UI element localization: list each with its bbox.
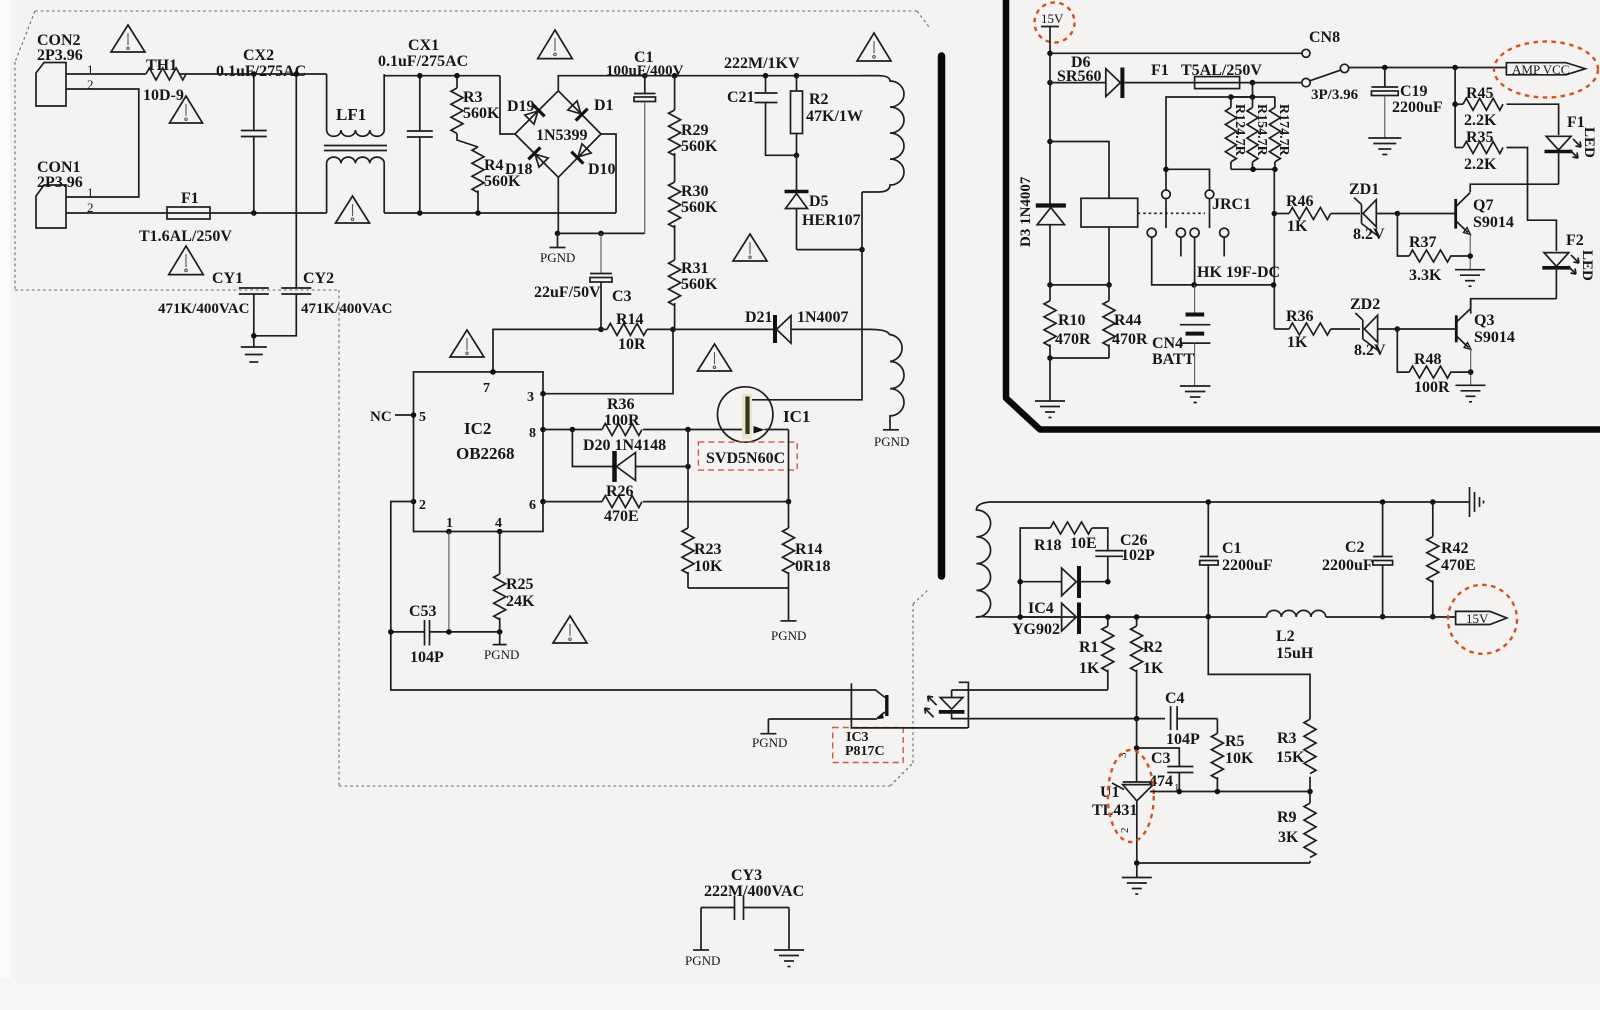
svg-text:102P: 102P: [1121, 547, 1155, 564]
warning triangle below TH1: [170, 96, 203, 123]
junction CY ground node: [251, 333, 257, 339]
svg-text:5: 5: [419, 410, 426, 425]
svg-text:3.3K: 3.3K: [1409, 267, 1442, 284]
resistor R30 560K: [669, 153, 718, 228]
svg-text:6: 6: [529, 498, 536, 513]
svg-text:471K/400VAC: 471K/400VAC: [301, 301, 392, 317]
svg-text:R31: R31: [681, 260, 709, 277]
wire contact3 to battery: [1194, 237, 1196, 285]
svg-text:R3: R3: [1277, 730, 1297, 747]
junction anode rail: [1134, 860, 1140, 866]
svg-text:AMP VCC: AMP VCC: [1512, 62, 1569, 77]
junction C3 top node: [598, 231, 604, 237]
svg-text:C19: C19: [1400, 83, 1428, 100]
svg-text:15K: 15K: [1276, 749, 1305, 766]
wire D21 line to aux winding: [673, 328, 775, 330]
resistor R14 0R18: [783, 502, 831, 588]
svg-text:D18: D18: [505, 161, 533, 178]
resistor trio top rail: [1231, 83, 1253, 97]
svg-text:IC1: IC1: [783, 407, 810, 426]
svg-text:8.2V: 8.2V: [1354, 342, 1386, 359]
resistor R26 470E: [602, 483, 642, 525]
resistor R36 1K (lower): [1286, 308, 1331, 351]
battery CN4 BATT: [1152, 285, 1210, 386]
capacitor CY2 471K/400VAC: [254, 270, 393, 336]
svg-text:R36: R36: [1286, 308, 1314, 325]
junction C53 pin1: [446, 629, 452, 635]
svg-text:HK 19F-DC: HK 19F-DC: [1197, 264, 1280, 281]
junction CX1 bottom: [417, 210, 423, 216]
wire relay coil top: [1050, 142, 1109, 199]
junction battery tap: [1191, 282, 1197, 288]
svg-text:8.2V: 8.2V: [1353, 226, 1385, 243]
junction C53 pin4: [497, 629, 503, 635]
svg-text:R14: R14: [616, 311, 644, 328]
svg-text:222M/1KV: 222M/1KV: [724, 55, 800, 72]
svg-text:1N4007: 1N4007: [797, 309, 849, 326]
wire R45 to F1 LED: [1507, 104, 1559, 135]
wire CN8 line: [1050, 52, 1303, 54]
junction C2 top: [1380, 499, 1386, 505]
earth ground below CY1/CY2: [241, 347, 267, 362]
wire base line to Q3: [1397, 328, 1455, 330]
wire pin6 to R26: [543, 501, 602, 503]
svg-text:R23: R23: [694, 541, 722, 558]
svg-text:2P3.96: 2P3.96: [37, 47, 83, 64]
svg-text:YG902: YG902: [1012, 621, 1060, 638]
junction C53 left: [388, 629, 394, 635]
fuse F1 T1.6AL/250V: [139, 190, 232, 245]
connector CON1 2P3.96: [36, 159, 94, 228]
junction C3 bottom: [1177, 789, 1183, 795]
svg-text:SVD5N60C: SVD5N60C: [706, 450, 785, 467]
wire R10/R44 top rail: [1050, 284, 1109, 286]
dashed border of primary-side region: [15, 11, 929, 786]
svg-text:R25: R25: [506, 576, 534, 593]
junction R15 bottom: [1250, 167, 1256, 173]
svg-text:470R: 470R: [1055, 331, 1091, 348]
svg-text:L2: L2: [1276, 628, 1295, 645]
wire Q7 emitter down: [1469, 234, 1471, 270]
diode D1 (bridge top-right arm): [566, 99, 587, 120]
svg-text:2: 2: [1119, 828, 1131, 834]
junction R46 tap: [1272, 211, 1278, 217]
resistor trio bottom rail: [1231, 168, 1275, 170]
diode D18 (bridge bottom-left arm): [528, 147, 549, 168]
warning triangle below LF1: [336, 196, 370, 223]
svg-text:10R: 10R: [618, 336, 646, 353]
junction IC4 lower cathode / R1 top: [1105, 614, 1111, 620]
warning triangle near transformer top: [857, 33, 891, 61]
svg-text:T5AL/250V: T5AL/250V: [1181, 62, 1262, 79]
junction R3 top: [454, 73, 460, 79]
svg-text:R1: R1: [1079, 639, 1099, 656]
wire F2 cathode to Q3 collector: [1471, 299, 1557, 314]
svg-text:R30: R30: [681, 183, 709, 200]
svg-text:LED: LED: [1579, 250, 1595, 281]
svg-text:2P3.96: 2P3.96: [37, 174, 83, 191]
svg-text:1K: 1K: [1287, 334, 1308, 351]
wire LF1 to CX1 (L): [384, 75, 500, 77]
svg-text:560K: 560K: [681, 138, 718, 155]
wire D21 anode to aux winding hook: [791, 328, 870, 330]
earth ground at Q3 emitter: [1456, 385, 1486, 402]
earth ground at CY3: [774, 908, 804, 967]
junction bridge minus node: [555, 231, 561, 237]
svg-text:R3: R3: [463, 89, 483, 106]
junction R10 bottom: [1047, 355, 1053, 361]
junction R17 bottom: [1272, 167, 1278, 173]
optocoupler IC3 LED side: [925, 682, 969, 728]
wire R35 to F2 LED: [1507, 148, 1557, 252]
pin 5 NC stub: [370, 409, 416, 425]
svg-text:CN8: CN8: [1309, 29, 1340, 46]
wire CON1 pin2 to fuse F1: [66, 212, 167, 214]
junction D20 right node: [685, 464, 691, 470]
junction IC4 upper cathode: [1105, 579, 1111, 585]
svg-text:560K: 560K: [463, 105, 500, 122]
svg-text:47K/1W: 47K/1W: [806, 108, 863, 125]
svg-text:S9014: S9014: [1474, 329, 1515, 346]
svg-text:T1.6AL/250V: T1.6AL/250V: [139, 228, 232, 245]
svg-text:D19: D19: [507, 98, 535, 115]
junction R3/R9 node: [1307, 789, 1313, 795]
pin 7 junction: [490, 369, 496, 375]
svg-text:PGND: PGND: [752, 735, 787, 750]
svg-text:D1: D1: [594, 97, 614, 114]
svg-text:8: 8: [529, 426, 536, 441]
wire left branch to relay contacts: [1166, 97, 1231, 190]
svg-text:S9014: S9014: [1473, 214, 1514, 231]
relay JRC1 HK 19F-DC: [1081, 190, 1280, 281]
capacitor CX2 0.1uF/275AC: [216, 47, 306, 213]
svg-text:10E: 10E: [1070, 535, 1097, 552]
svg-text:PGND: PGND: [771, 628, 806, 643]
resistor R37 3.3K: [1397, 214, 1470, 285]
svg-text:R2: R2: [809, 91, 829, 108]
wire R14 to R31/D21 node: [647, 328, 673, 330]
junction C1 bottom: [1206, 614, 1212, 620]
junction ZD2/R48 node: [1395, 326, 1401, 332]
svg-text:IC3: IC3: [846, 730, 869, 745]
zener ZD2 8.2V: [1350, 296, 1397, 359]
PGND symbol at bridge: [540, 233, 575, 265]
PGND at CY3: [685, 908, 720, 969]
junction CX2 bottom / CY1 tap: [251, 210, 257, 216]
zener ZD1 8.2V: [1349, 181, 1397, 243]
wire base line to Q7: [1397, 213, 1454, 215]
junction IC4 upper anode: [1017, 579, 1023, 585]
svg-text:R35: R35: [1466, 129, 1494, 146]
svg-text:R44: R44: [1114, 312, 1142, 329]
junction CX2 top: [251, 71, 257, 77]
svg-text:R18: R18: [1034, 537, 1062, 554]
15V supply terminal (circled): [1035, 3, 1075, 54]
warning triangle near CON2: [111, 25, 145, 52]
resistor R18 10E: [1020, 522, 1108, 554]
svg-text:2.2K: 2.2K: [1464, 112, 1497, 129]
wire N up to bridge right corner: [601, 134, 616, 213]
svg-text:TL431: TL431: [1092, 802, 1137, 819]
svg-text:TH1: TH1: [146, 57, 177, 74]
shunt regulator U1 TL431: [1092, 750, 1154, 863]
wire bridge + output to C1 rail: [558, 76, 880, 91]
svg-text:Q3: Q3: [1474, 312, 1494, 329]
svg-text:LF1: LF1: [336, 105, 366, 124]
svg-text:C2: C2: [1345, 539, 1365, 556]
capacitor C1 2200uF (secondary): [1200, 502, 1273, 617]
junction D6 anode: [1047, 80, 1053, 86]
svg-text:IC4: IC4: [1028, 600, 1054, 617]
warning triangle near IC2 pin7: [450, 330, 484, 357]
svg-text:1K: 1K: [1079, 660, 1100, 677]
svg-text:CY3: CY3: [731, 867, 762, 884]
wire D6 anode lead: [1050, 82, 1106, 84]
svg-text:7: 7: [483, 381, 490, 396]
svg-text:F2: F2: [1566, 232, 1584, 249]
svg-text:HER107: HER107: [802, 212, 861, 229]
svg-text:CX2: CX2: [243, 47, 274, 64]
junction C3 tap: [1134, 745, 1140, 751]
svg-text:PGND: PGND: [874, 434, 909, 449]
earth ground at Q7 emitter: [1455, 270, 1485, 287]
svg-text:3K: 3K: [1278, 829, 1299, 846]
pin 6 junction: [540, 499, 546, 505]
pin 4 junction: [497, 529, 503, 535]
svg-text:D10: D10: [588, 161, 616, 178]
earth ground below TL431: [1122, 863, 1152, 894]
svg-text:R174.7R: R174.7R: [1276, 104, 1291, 157]
diode D3 1N4007: [1018, 176, 1066, 285]
resistor R14 10R: [601, 311, 647, 353]
wire pin2 to opto collector: [391, 502, 877, 691]
wire IC4 anode riser: [1019, 534, 1021, 617]
resistor R44 470R: [1103, 285, 1148, 358]
wire switch to AMP VCC rail: [1349, 67, 1507, 69]
wire R46 to ZD1: [1331, 213, 1360, 215]
wire source node down to R26 line: [788, 430, 790, 502]
wire fuse to switch: [1240, 82, 1302, 84]
wire ref line: [1150, 791, 1310, 793]
svg-text:IC2: IC2: [464, 419, 491, 438]
svg-text:R5: R5: [1225, 733, 1245, 750]
resistor R2 1K (secondary): [1131, 617, 1164, 719]
resistor R5 10K: [1211, 719, 1254, 792]
wire D6 to fuse: [1124, 82, 1194, 84]
wire F1 cathode to Q7 collector: [1470, 184, 1558, 192]
svg-text:D3 1N4007: D3 1N4007: [1018, 176, 1034, 247]
junction relay coil bottom: [1106, 282, 1112, 288]
svg-text:R45: R45: [1466, 85, 1494, 102]
wire LED anode to R1: [952, 689, 1108, 691]
wire CON2 pin2 joins CON1 pin1: [66, 89, 139, 197]
wire L2 to 15V flag: [1326, 616, 1456, 618]
resistor R2 47K/1W: [791, 76, 863, 156]
switch 3P/3.96: [1302, 64, 1359, 103]
svg-text:560K: 560K: [681, 276, 718, 293]
wire C1 bottom to R3 feed: [1208, 617, 1310, 720]
wire CY2 branch from L line: [295, 74, 297, 288]
svg-text:1K: 1K: [1143, 660, 1164, 677]
optocoupler IC3 P817C transistor side: [768, 690, 886, 719]
svg-text:PGND: PGND: [685, 953, 720, 968]
junction R36/R23 riser: [685, 427, 691, 433]
PGND under R14: [771, 588, 806, 643]
svg-text:R46: R46: [1286, 193, 1314, 210]
svg-text:R124.7R: R124.7R: [1232, 104, 1247, 157]
svg-text:R14: R14: [795, 541, 823, 558]
svg-text:JRC1: JRC1: [1212, 196, 1251, 213]
capacitor C4 104P: [1165, 690, 1217, 748]
wire fuse to LF1 (N line): [210, 212, 327, 214]
junction IC4 lower anode: [1017, 614, 1023, 620]
svg-text:560K: 560K: [681, 199, 718, 216]
wire opto to C4 line: [968, 718, 1165, 720]
svg-text:P817C: P817C: [845, 744, 885, 759]
resistor R46 1K: [1274, 193, 1330, 235]
capacitor C3 474 (secondary): [1137, 748, 1194, 794]
svg-text:R9: R9: [1277, 809, 1297, 826]
svg-text:1: 1: [446, 516, 453, 531]
svg-text:OB2268: OB2268: [456, 444, 515, 463]
capacitor C3 22uF/50V: [534, 233, 632, 329]
wire R3 to R4: [457, 134, 478, 148]
svg-text:0.1uF/275AC: 0.1uF/275AC: [378, 53, 468, 70]
wire trio to ZD rows: [1273, 169, 1275, 329]
wire L into bridge left corner: [500, 76, 515, 134]
svg-text:2.2K: 2.2K: [1464, 156, 1497, 173]
wire LF1 to bridge (N): [384, 212, 616, 214]
svg-text:D5: D5: [809, 193, 829, 210]
connector CON2 2P3.96: [36, 32, 94, 106]
junction R42 bottom: [1430, 614, 1436, 620]
svg-text:2200uF: 2200uF: [1222, 557, 1273, 574]
junction C2 bottom: [1380, 614, 1386, 620]
wire pin8 line to R36: [543, 429, 602, 431]
svg-text:1K: 1K: [1287, 218, 1308, 235]
svg-text:100R: 100R: [1414, 379, 1450, 396]
earth ground below R10: [1035, 358, 1065, 418]
PGND at opto emitter: [752, 719, 787, 750]
junction C19 tap: [1382, 65, 1388, 71]
label box SVD5N60C: [698, 442, 797, 470]
connector CN8: [1302, 29, 1340, 57]
wire R2 node down to TL431: [1136, 719, 1138, 782]
IC U2 OB2268 box: [414, 372, 544, 532]
resistor R3 15K (secondary): [1276, 719, 1316, 791]
svg-text:0.1uF/275AC: 0.1uF/275AC: [216, 63, 306, 80]
bridge rectifier 1N5399 diamond: [515, 91, 601, 178]
svg-text:3P/3.96: 3P/3.96: [1311, 87, 1359, 103]
svg-text:PGND: PGND: [484, 647, 519, 662]
svg-text:104P: 104P: [1166, 731, 1200, 748]
svg-text:R42: R42: [1441, 540, 1469, 557]
svg-text:Q7: Q7: [1473, 197, 1493, 214]
junction D5/drain node: [859, 247, 865, 253]
svg-text:10K: 10K: [694, 558, 723, 575]
wire R23 to R14 bottoms: [688, 587, 789, 589]
pin 8 junction: [540, 427, 546, 433]
resistor R3 560K: [451, 76, 500, 134]
svg-text:CN4: CN4: [1152, 335, 1183, 352]
label box IC3 P817C: [833, 728, 904, 763]
svg-text:470E: 470E: [604, 508, 639, 525]
junction C1 top: [1206, 499, 1212, 505]
wire LED-cathode return crossing: [851, 683, 967, 728]
svg-text:24K: 24K: [506, 593, 535, 610]
wire R36 to ZD2: [1331, 328, 1360, 330]
wire Q3 collector up: [1470, 299, 1472, 309]
capacitor C1 100uF/400V: [606, 49, 684, 233]
diode D5 HER107: [785, 155, 861, 249]
svg-text:22uF/50V: 22uF/50V: [534, 284, 601, 301]
wire AMP VCC node down to R45/R35: [1454, 68, 1456, 148]
wire riser to R36 row: [1274, 328, 1289, 330]
wire riser R36-node to R23: [687, 430, 689, 529]
PGND at aux winding: [874, 430, 909, 449]
resistor R4 560K: [472, 147, 521, 213]
resistor R48 100R: [1397, 329, 1470, 396]
earth ground sideways at top rail end: [1470, 487, 1484, 517]
net flag AMP VCC (circled): [1494, 42, 1598, 98]
junction R12 top: [1228, 94, 1234, 100]
warning triangle below C53: [553, 616, 587, 643]
resistor R45 2.2K: [1455, 85, 1503, 129]
wire R26 to source-sense node: [643, 501, 789, 503]
fuse F1 T5AL/250V: [1151, 62, 1262, 89]
svg-text:CX1: CX1: [408, 37, 439, 54]
svg-text:2200uF: 2200uF: [1392, 99, 1443, 116]
wire 15V node down: [1049, 53, 1051, 204]
warning triangle near D21/IC1: [698, 344, 732, 371]
svg-text:SR560: SR560: [1057, 68, 1101, 85]
LED F1: [1545, 114, 1598, 184]
resistor R36 100R: [602, 396, 642, 436]
resistor R10 470R: [1044, 285, 1091, 358]
junction ZD row riser: [1271, 282, 1277, 288]
svg-text:15uH: 15uH: [1276, 645, 1314, 662]
resistor R23 10K: [682, 528, 723, 588]
bold border of amplifier power region: [1006, 0, 1600, 430]
junction ZD1/R37 node: [1395, 211, 1401, 217]
resistor R42 470E: [1427, 502, 1476, 617]
transistor Q3 S9014: [1456, 309, 1515, 350]
diode D19 (bridge top-left arm): [523, 104, 544, 125]
capacitor C2 2200uF: [1322, 502, 1393, 617]
svg-text:15V: 15V: [1041, 11, 1064, 26]
svg-text:471K/400VAC: 471K/400VAC: [158, 301, 249, 317]
thermistor TH1 10D-9: [143, 57, 186, 104]
wire bridge - output down: [557, 177, 559, 233]
dual diode IC4 YG902 lower: [1012, 600, 1108, 638]
resistor R35 2.2K: [1455, 129, 1503, 173]
resistor R15 4.7R: [1247, 97, 1269, 169]
svg-text:10D-9: 10D-9: [143, 87, 184, 104]
junction C1 rail at C1: [642, 73, 648, 79]
svg-text:R29: R29: [681, 122, 709, 139]
junction R2 top: [794, 73, 800, 79]
svg-text:2200uF: 2200uF: [1322, 557, 1373, 574]
transformer auxiliary winding: [870, 329, 904, 429]
svg-text:4: 4: [495, 516, 502, 531]
svg-text:C3: C3: [612, 288, 632, 305]
junction R45 tap: [1452, 65, 1458, 71]
resistor R12 4.7R: [1225, 97, 1247, 169]
svg-text:2: 2: [419, 498, 426, 513]
svg-text:CY2: CY2: [303, 270, 334, 287]
svg-text:R10: R10: [1058, 312, 1086, 329]
junction fuse output: [1250, 80, 1256, 86]
